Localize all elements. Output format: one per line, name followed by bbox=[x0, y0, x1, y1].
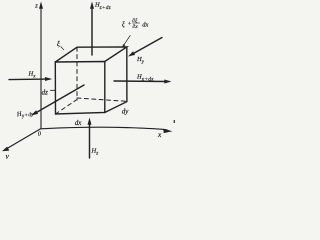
svg-text:ξ: ξ bbox=[122, 21, 125, 29]
svg-text:+: + bbox=[128, 22, 132, 28]
svg-text:dx: dx bbox=[75, 119, 83, 127]
svg-text:x: x bbox=[157, 130, 162, 139]
z axis bbox=[40, 6, 42, 129]
svg-text:dy: dy bbox=[122, 107, 130, 115]
leader for xi label bbox=[61, 47, 64, 50]
svg-text:∂x: ∂x bbox=[133, 24, 139, 30]
vector H_z bbox=[89, 124, 91, 159]
vector H_x bbox=[9, 78, 47, 81]
hidden back-left vertical edge bbox=[76, 47, 78, 100]
svg-text:z+dz: z+dz bbox=[99, 5, 112, 11]
vector H_y bbox=[133, 38, 163, 55]
tick on left edge (dz mark) bbox=[50, 89, 55, 91]
hidden bottom-left edge bbox=[56, 100, 78, 115]
svg-text:y: y bbox=[5, 152, 10, 160]
x axis bbox=[41, 127, 167, 130]
vector H_z+dz bbox=[91, 8, 93, 56]
svg-text:z: z bbox=[95, 151, 98, 156]
vector H_x+dx bbox=[114, 80, 166, 83]
cube top face edges bbox=[55, 47, 127, 62]
cube right face edges bbox=[105, 47, 127, 113]
svg-text:z: z bbox=[34, 3, 38, 10]
vector H_y+dy bbox=[36, 85, 85, 113]
corner speck bbox=[174, 120, 175, 123]
leader for xi+dxi label bbox=[124, 36, 131, 46]
svg-text:x+dx: x+dx bbox=[141, 76, 154, 82]
y axis bbox=[7, 129, 41, 149]
cube front face bbox=[55, 62, 105, 115]
svg-text:dz: dz bbox=[42, 88, 49, 96]
svg-text:dx: dx bbox=[142, 21, 148, 28]
label H_y+dy bbox=[15, 109, 34, 120]
hidden back-bottom edge bbox=[77, 98, 127, 101]
